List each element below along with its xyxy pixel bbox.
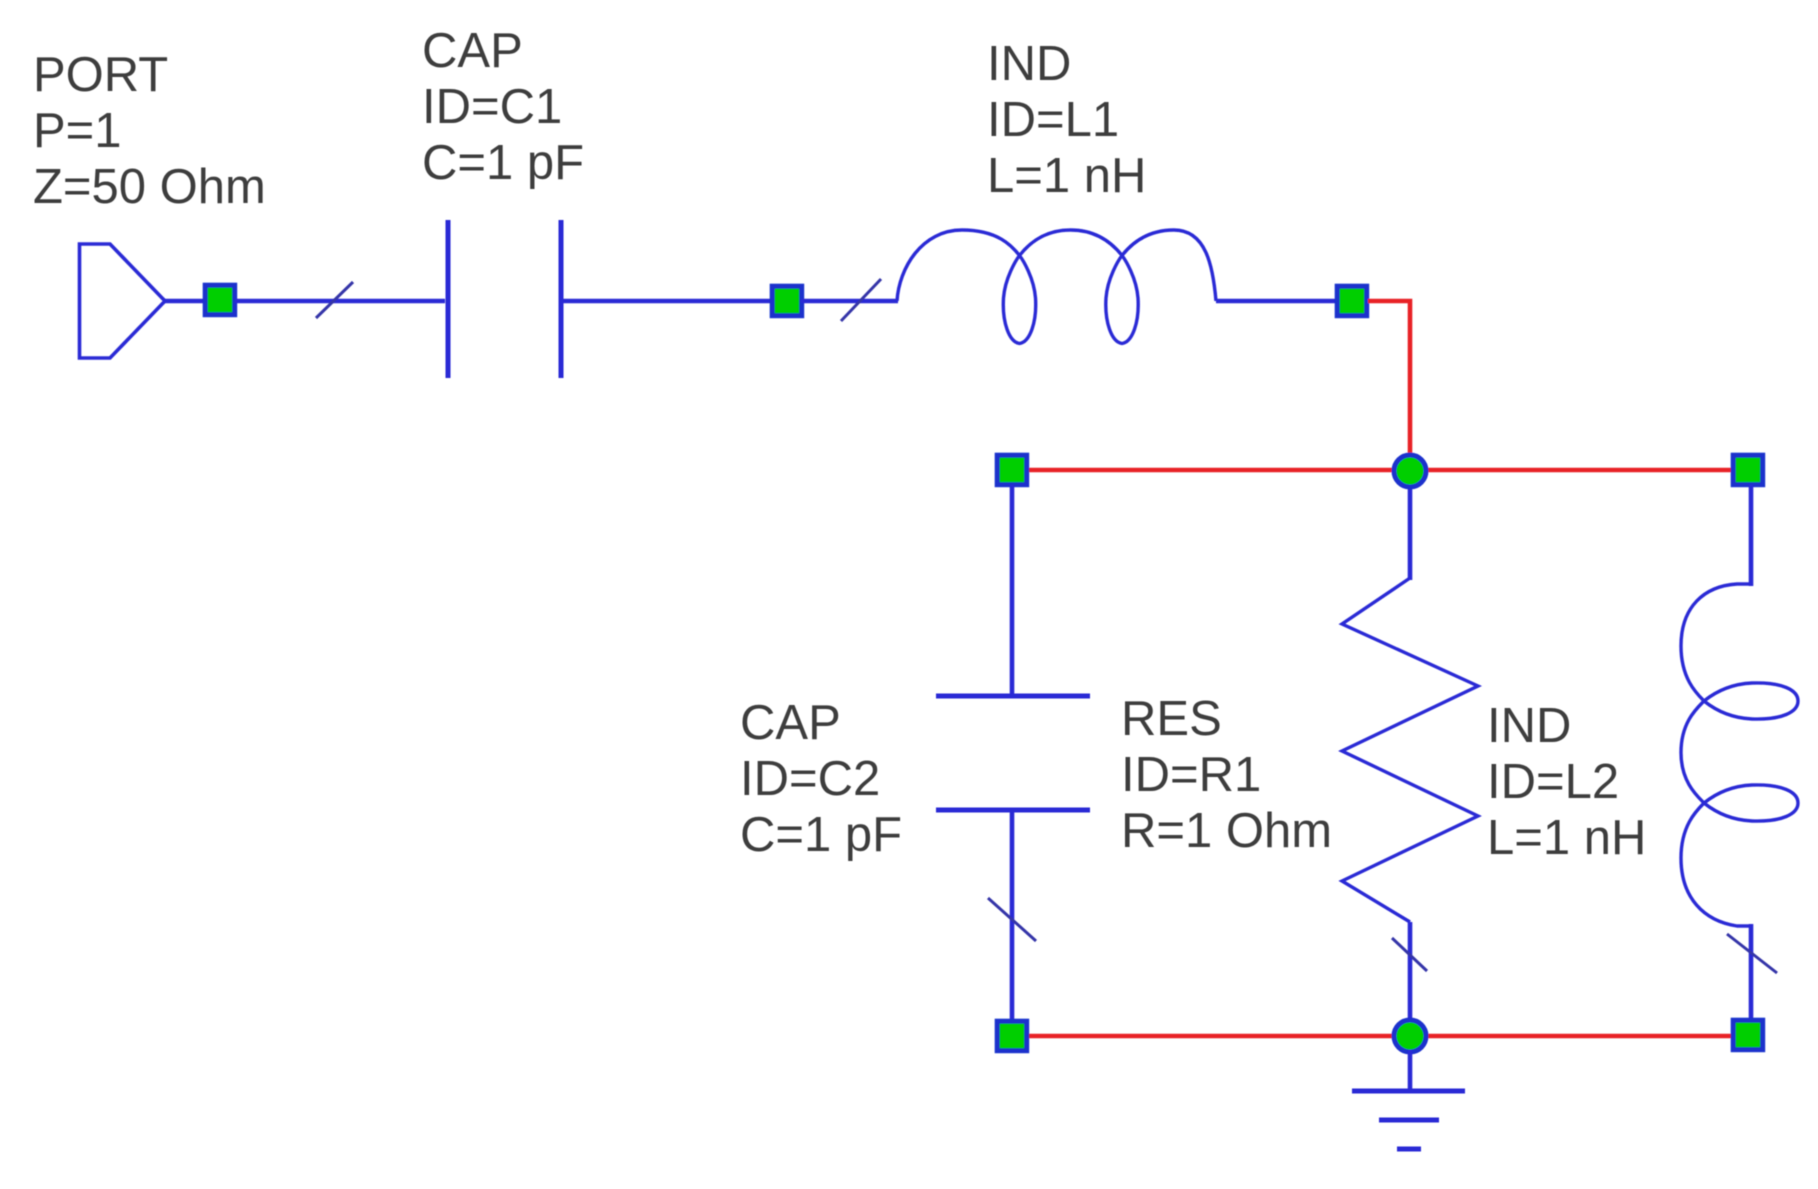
svg-text:PORT: PORT <box>33 48 168 102</box>
capacitor C2 <box>936 696 1090 810</box>
svg-text:CAP: CAP <box>422 24 523 78</box>
inductor L2 coil <box>1681 584 1798 926</box>
svg-text:ID=C1: ID=C1 <box>422 80 562 134</box>
label PORT P1 <box>33 48 266 214</box>
inductor L1 coil <box>897 230 1216 344</box>
node pin C2 bottom <box>997 1021 1026 1050</box>
wire L2 top lead <box>1749 485 1754 586</box>
label CAP C2 <box>740 696 902 862</box>
svg-text:L=1 nH: L=1 nH <box>1487 811 1646 865</box>
wire pin to C1 <box>235 299 445 304</box>
wire bottom rail (red) <box>1027 1034 1733 1039</box>
tick on port wire <box>316 282 353 318</box>
svg-text:ID=R1: ID=R1 <box>1121 748 1261 802</box>
ground <box>1352 1091 1465 1149</box>
svg-text:ID=L2: ID=L2 <box>1487 755 1619 809</box>
wire top rail (red) <box>1027 468 1733 473</box>
wire R1 bottom lead <box>1408 922 1413 1036</box>
wire ground lead <box>1408 1050 1413 1091</box>
svg-text:L=1 nH: L=1 nH <box>987 149 1146 203</box>
wire R1 top lead <box>1408 471 1413 580</box>
node pin2 <box>772 286 802 316</box>
wire L1 to pin3 <box>1216 299 1339 304</box>
node junction top <box>1394 455 1426 487</box>
svg-text:RES: RES <box>1121 692 1222 746</box>
label IND L2 <box>1487 699 1646 865</box>
svg-text:CAP: CAP <box>740 696 841 750</box>
wire C1 to pin2 <box>563 299 774 304</box>
svg-text:P=1: P=1 <box>33 104 122 158</box>
resistor R1 zigzag <box>1342 578 1478 922</box>
wire L2 bottom lead <box>1749 924 1754 1022</box>
port P1 <box>80 244 166 358</box>
capacitor C1 <box>448 220 561 378</box>
label RES R1 <box>1121 692 1332 858</box>
wire C2 bottom lead <box>1010 812 1015 1021</box>
svg-text:R=1 Ohm: R=1 Ohm <box>1121 804 1332 858</box>
label IND L1 <box>987 37 1146 203</box>
wire net1 pin3 to corner (red) <box>1368 301 1410 471</box>
wire port to pin <box>165 299 206 304</box>
node pin C2 top <box>997 455 1026 485</box>
node pin L2 bottom <box>1733 1020 1763 1049</box>
node pin L2 top <box>1733 455 1763 485</box>
node pin port <box>205 285 235 315</box>
wire pin2 to L1 <box>801 299 898 304</box>
svg-text:Z=50 Ohm: Z=50 Ohm <box>33 160 266 214</box>
node pin3 <box>1337 286 1367 316</box>
svg-text:C=1 pF: C=1 pF <box>740 808 902 862</box>
label CAP C1 <box>422 24 584 190</box>
tick on R1 lead <box>1392 938 1427 971</box>
svg-text:C=1 pF: C=1 pF <box>422 136 584 190</box>
svg-text:ID=L1: ID=L1 <box>987 93 1119 147</box>
node junction bottom <box>1394 1020 1426 1052</box>
tick on C2 lead <box>988 898 1036 941</box>
tick on L1 lead <box>841 279 881 321</box>
svg-text:IND: IND <box>987 37 1071 91</box>
svg-text:IND: IND <box>1487 699 1571 753</box>
tick on L2 lead <box>1727 934 1777 973</box>
svg-text:ID=C2: ID=C2 <box>740 752 880 806</box>
wire C2 top lead <box>1010 485 1015 694</box>
